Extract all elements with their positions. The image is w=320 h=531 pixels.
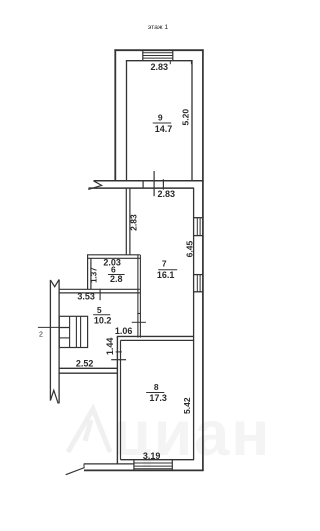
svg-text:6.45: 6.45 [184,241,194,258]
svg-text:8: 8 [154,382,159,392]
svg-text:1.37: 1.37 [90,267,99,283]
svg-text:16.1: 16.1 [157,270,175,280]
svg-text:3.53: 3.53 [77,292,95,302]
svg-text:7: 7 [162,259,167,269]
svg-text:2.83: 2.83 [158,189,176,199]
svg-text:14.7: 14.7 [155,124,173,134]
svg-text:5.42: 5.42 [182,397,192,414]
svg-text:2.83: 2.83 [151,62,169,72]
svg-text:5: 5 [97,305,102,315]
svg-text:2: 2 [39,332,43,339]
svg-text:5.20: 5.20 [180,109,190,126]
svg-text:2.8: 2.8 [110,274,123,284]
svg-text:2.83: 2.83 [128,214,138,231]
svg-text:3.19: 3.19 [143,451,161,461]
svg-text:1.44: 1.44 [105,338,115,356]
svg-text:10.2: 10.2 [94,316,112,326]
svg-text:2.52: 2.52 [76,359,94,369]
svg-text:этаж 1: этаж 1 [148,24,169,31]
svg-text:1.06: 1.06 [115,326,133,336]
svg-text:17.3: 17.3 [149,393,167,403]
svg-text:9: 9 [158,112,163,122]
